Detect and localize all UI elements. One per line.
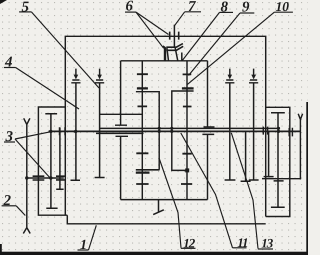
right box bearing shaft x278 [271,113,285,208]
shift arrow symbol 1 [71,69,80,83]
svg-text:5: 5 [22,0,30,16]
right side housing box [266,107,290,216]
gears on shaft x142 [136,74,148,184]
junction node gear disc V1 upper [158,127,161,130]
leader 1 [89,225,97,250]
carrier frame left side with bearings [115,61,128,200]
junction node left gear line at x51 [49,176,52,179]
input shaft [173,25,175,48]
svg-text:4: 4 [4,55,13,71]
main shaft [49,130,302,132]
carrier frame right side with bearings [202,61,214,200]
clutch cup walls [167,48,178,61]
junction node sleeve end upper [277,127,280,130]
leader 13 [231,133,258,249]
leader 10 [187,12,274,84]
shaft E x245 [241,131,251,181]
shift arrow symbol 3 [225,69,234,83]
gear shaft H x60 [56,128,63,190]
svg-text:9: 9 [242,0,250,16]
carrier frame top edge [121,60,208,62]
scan corner wedge top-left [0,0,7,4]
leader 3 lower [15,139,50,178]
svg-text:8: 8 [221,0,229,16]
clutch right wall [181,53,183,61]
clutch small diagonal [163,46,165,48]
gearbox housing outer rectangle [65,36,265,224]
underline label 7 [185,11,201,13]
junction node gear disc V1 lower [158,130,161,133]
shaft C x230 [225,83,236,180]
left side housing box [38,107,67,215]
svg-text:1: 1 [80,238,87,253]
bearing ticks at right wall [263,127,267,135]
left lower gear line [27,177,64,179]
leader 11 [181,133,233,248]
leader 4 [16,68,79,110]
underline label 2 [2,205,17,207]
junction node sleeve end lower [277,130,280,133]
leader lines [15,12,274,250]
svg-text:6: 6 [126,0,134,15]
gear disc V2 x171.8 [172,91,194,170]
right vertical shaft with fork end [298,114,302,180]
right lower gear line [262,178,300,180]
left box bearing shaft x51 [45,114,57,209]
junction node on main shaft at x51 [49,130,52,133]
svg-text:3: 3 [5,129,14,145]
leader 8 [182,12,219,60]
underline label 8 [220,11,234,13]
underline label 3 [4,141,15,143]
left vertical shaft with fork ends [23,118,30,233]
main shaft sleeve upper line [100,127,279,129]
cone clutch upper half [166,44,183,48]
shift arrow symbol 2 [95,69,104,83]
long gear line x136-160 [136,169,160,171]
junction node on main shaft at x76 [74,130,77,133]
junction node left gear line at fork shaft [25,176,28,179]
input shaft bearing [170,32,179,40]
junction node at reverse gear x187 [185,168,189,172]
leader 6b [136,12,164,48]
leader 5 [31,12,99,88]
clutch left wall [164,47,166,61]
gears on shaft x187 [181,74,192,184]
cone clutch lower half [166,46,183,50]
scan border left bottom [0,244,2,255]
carrier frame bottom edge [121,199,208,201]
left gear pair bars [33,176,45,180]
gear disc V1 x159.2 [136,92,159,170]
underline label 1 [78,249,89,251]
junction node gear disc V2 lower [170,130,173,133]
underline label 9 [240,12,254,14]
scan border right [306,102,308,255]
underline label 5 [19,11,31,13]
shaft A x76 [71,83,81,181]
anchor symbol below frame [153,200,164,215]
svg-text:13: 13 [261,236,274,251]
gear pair bars on shaft H [56,176,65,180]
underline label 11 [233,247,247,249]
shaft D x254 [249,83,259,180]
planet shaft x187 [186,61,188,200]
underline label 6 [125,11,136,13]
svg-text:10: 10 [276,0,290,14]
svg-text:2: 2 [3,193,12,209]
shift arrow symbol 4 [249,69,258,83]
underline label 13 [258,248,273,250]
leader 7 [174,12,184,26]
leader 12 [159,159,181,248]
scan border bottom [0,252,308,255]
gear top line on main shaft [100,113,143,115]
underline label 4 [4,67,16,69]
underline label 12 [181,247,196,249]
svg-text:11: 11 [237,235,248,250]
svg-text:7: 7 [188,0,196,15]
shaft B x100 [95,83,105,178]
leader 9 [189,13,241,76]
gear shaft F x268 [264,131,274,176]
svg-text:12: 12 [183,235,196,250]
junction node gear disc V2 upper [170,127,173,130]
underline label 10 [274,11,293,13]
leader 2 [16,206,25,216]
bearing ticks at right box wall [289,128,292,137]
planet shaft x142 [141,61,143,200]
leader 3 upper [15,132,50,139]
leader 6a [136,12,169,34]
bearing ticks at left wall [60,127,66,135]
sleeve lower line [96,132,144,134]
